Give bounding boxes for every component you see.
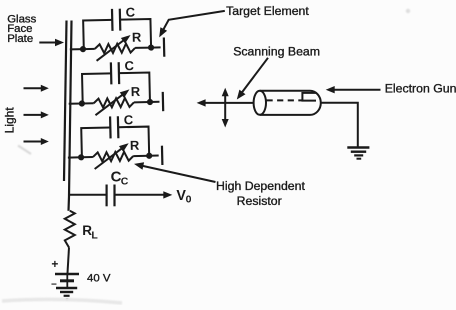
svg-text:R: R xyxy=(132,29,142,44)
svg-text:C: C xyxy=(121,176,129,188)
svg-text:L: L xyxy=(91,229,98,241)
svg-text:C: C xyxy=(124,58,134,73)
svg-text:C: C xyxy=(124,112,134,127)
svg-text:Target Element: Target Element xyxy=(226,4,309,18)
svg-text:Electron Gun: Electron Gun xyxy=(385,82,456,96)
svg-text:0: 0 xyxy=(186,194,192,206)
svg-text:Scanning Beam: Scanning Beam xyxy=(233,45,320,59)
svg-text:R: R xyxy=(131,84,141,99)
svg-text:High Dependent: High Dependent xyxy=(216,179,305,193)
svg-text:40 V: 40 V xyxy=(87,272,111,284)
svg-text:+: + xyxy=(51,257,58,271)
svg-text:C: C xyxy=(126,5,136,20)
svg-text:Light: Light xyxy=(3,107,17,134)
svg-text:R: R xyxy=(130,138,140,153)
svg-text:Resistor: Resistor xyxy=(237,194,282,208)
svg-text:Plate: Plate xyxy=(7,33,33,45)
